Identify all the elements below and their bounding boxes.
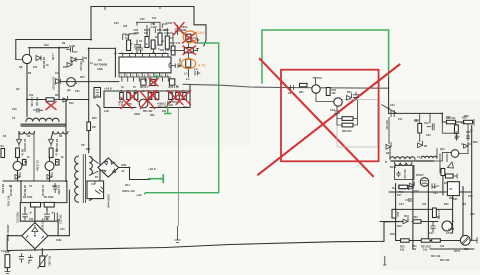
wire bridge2 E <box>119 168 150 180</box>
resistor R07 <box>342 123 353 127</box>
boundary faint box <box>337 100 378 148</box>
wire inter-stage <box>18 158 50 182</box>
svg-text:R26: R26 <box>446 116 451 119</box>
resistor R35 <box>183 93 187 100</box>
svg-text:GND: GND <box>97 68 103 71</box>
annotation X on R36 <box>46 102 56 110</box>
capacitor C56 <box>138 44 143 53</box>
capacitor C04 <box>334 107 339 118</box>
resistor R48 x-ed <box>184 48 193 53</box>
capacitor C22 <box>427 123 434 130</box>
transistor Q24 <box>442 221 452 231</box>
resistor R43 <box>145 37 149 48</box>
resistor R16B <box>446 174 454 178</box>
svg-text:2.2: 2.2 <box>194 68 198 71</box>
resistor R33 <box>169 93 173 100</box>
svg-text:B772: B772 <box>454 250 461 253</box>
wire Q01 emitter <box>316 93 334 101</box>
svg-text:R31: R31 <box>183 106 188 109</box>
svg-text:C11: C11 <box>29 218 34 221</box>
svg-text:PC817: PC817 <box>416 174 424 177</box>
svg-text:2200: 2200 <box>52 185 58 188</box>
svg-text:+10n: +10n <box>136 194 142 197</box>
component row above T1 <box>27 99 89 101</box>
resistor R60 <box>148 93 152 100</box>
svg-text:C22: C22 <box>424 122 429 125</box>
svg-text:2.2: 2.2 <box>186 78 190 81</box>
diode D5 <box>17 140 22 147</box>
IC top pin stubs <box>123 53 168 57</box>
svg-text:103: 103 <box>5 251 10 254</box>
annotation X on R33 <box>168 91 184 105</box>
wire T2 bottom stub <box>91 181 95 184</box>
svg-text:R2 150k: R2 150k <box>44 196 54 199</box>
svg-text:D12: D12 <box>69 102 74 105</box>
wire bridge E <box>48 235 69 237</box>
transistor Q10 <box>22 54 31 63</box>
svg-text:R2 430k: R2 430k <box>1 184 4 194</box>
wire to R-network <box>20 181 22 203</box>
svg-text:T1: T1 <box>12 116 16 120</box>
svg-text:10k: 10k <box>412 248 417 251</box>
wire riser right <box>65 100 67 182</box>
svg-text:C36: C36 <box>12 108 17 111</box>
capacitor C26 <box>397 171 401 177</box>
capacitor C03 <box>353 92 359 101</box>
annotation X on C60A <box>174 23 184 35</box>
svg-text:C13: C13 <box>44 218 49 221</box>
svg-text:0.022: 0.022 <box>166 22 173 25</box>
capacitor C33 <box>431 222 436 232</box>
capacitor C13 <box>44 211 53 220</box>
wire resistor row rail1 <box>20 202 67 204</box>
resistor R40 top <box>399 185 408 188</box>
INNER BOX CIRCUIT <box>288 76 378 147</box>
svg-text:D10 FR107: D10 FR107 <box>52 77 55 90</box>
transformer T1 core <box>21 124 66 126</box>
node green stub marker <box>164 101 171 114</box>
wire left drop <box>15 40 17 60</box>
capacitor C27 <box>455 134 459 141</box>
svg-text:104: 104 <box>33 66 38 69</box>
diode D10 <box>56 79 61 84</box>
svg-text:KA7500B: KA7500B <box>94 63 108 67</box>
wire T2 to bridge top <box>91 158 99 164</box>
svg-text:2.2k: 2.2k <box>104 110 109 113</box>
annotation X on R63 <box>149 79 158 87</box>
svg-text:473: 473 <box>123 25 128 28</box>
node tick top rail <box>105 7 160 11</box>
bridge rectifier D1-D4 <box>22 223 48 249</box>
node green probe marker <box>148 174 164 183</box>
wire pin10 out <box>191 38 200 43</box>
annotation X on R51 <box>183 33 197 44</box>
wire bottom bus <box>3 180 66 182</box>
transistor Q1 <box>13 162 22 171</box>
svg-text:104: 104 <box>398 118 403 121</box>
wire top outer loop <box>16 7 206 47</box>
capacitor C66 in circle <box>186 59 191 67</box>
resistor R30 <box>418 124 422 134</box>
wire under R51 <box>170 41 199 77</box>
svg-text:A733: A733 <box>448 228 455 231</box>
svg-text:180k: 180k <box>121 164 127 167</box>
transformer T2 right winding A <box>89 157 92 176</box>
value labels left block <box>3 17 190 254</box>
wire branch vertical <box>88 49 90 123</box>
wire rail +B <box>28 47 68 49</box>
capacitor C24 <box>391 110 394 117</box>
transformer T2 left winding <box>75 156 79 202</box>
transformer T3 bottom winding <box>395 163 412 166</box>
wire grid horizontals <box>380 192 472 241</box>
varistor TH1 <box>40 256 45 267</box>
capacitor C59 <box>151 43 157 53</box>
svg-text:22k: 22k <box>162 110 167 113</box>
svg-text:TH1 302: TH1 302 <box>48 256 51 266</box>
resistor R62 <box>155 93 159 100</box>
annotation orange circle C66 <box>181 59 195 69</box>
svg-text:R61 33k: R61 33k <box>143 110 153 113</box>
wire right col verticals <box>442 122 468 140</box>
resistor R6 <box>23 160 27 166</box>
wire riser x69 <box>68 190 70 236</box>
svg-text:3x4B: 3x4B <box>69 45 75 48</box>
wire x100 into box <box>99 178 101 181</box>
capacitor C31 <box>432 183 439 188</box>
svg-text:4.7k: 4.7k <box>164 32 169 35</box>
wire T1 center tap <box>33 132 35 182</box>
svg-text:R5 1k: R5 1k <box>21 149 24 156</box>
RED ANNOTATIONS <box>46 23 400 177</box>
svg-text:R15: R15 <box>80 76 85 79</box>
svg-text:R1A 1.0k: R1A 1.0k <box>8 195 11 206</box>
transistor Q01 <box>312 85 320 93</box>
svg-text:10k: 10k <box>440 245 445 248</box>
svg-text:R19: R19 <box>396 212 399 217</box>
svg-text:D24: D24 <box>404 215 409 218</box>
svg-text:C10 220u: C10 220u <box>16 212 19 223</box>
wire rail2 <box>20 203 58 236</box>
diode D26 <box>448 162 454 168</box>
transformer T1 secondary A <box>19 132 35 135</box>
GREEN ANNOTATIONS <box>144 30 389 194</box>
capacitor C10 <box>22 211 31 220</box>
diode D7b <box>47 172 52 179</box>
svg-text:7805: 7805 <box>452 198 458 201</box>
RIGHT BLOCK <box>380 78 478 265</box>
components under IC: resistor R64 <box>141 79 146 85</box>
diode D21 <box>418 141 423 148</box>
svg-text:+1.4B: +1.4B <box>51 53 54 60</box>
svg-text:R17: R17 <box>397 194 402 197</box>
svg-text:R42: R42 <box>413 216 418 219</box>
svg-text:C35: C35 <box>470 213 475 216</box>
diode D24 <box>403 217 408 224</box>
capacitor C28 end <box>473 119 475 126</box>
wire T2 to bridge bottom <box>91 171 99 175</box>
resistor R31 <box>441 169 445 176</box>
bridge rectifier 2 <box>98 158 119 177</box>
capacitor C61 <box>171 64 183 68</box>
resistor R18b <box>450 191 457 195</box>
svg-text:10k: 10k <box>423 249 428 252</box>
svg-text:2.0: 2.0 <box>184 73 188 76</box>
svg-text:R32 22k: R32 22k <box>158 106 168 109</box>
svg-text:R49 4.7k: R49 4.7k <box>170 42 181 45</box>
IC U1 KA7500B <box>119 57 171 73</box>
svg-text:1N: 1N <box>84 57 87 60</box>
wire slant <box>97 105 100 182</box>
svg-text:22k: 22k <box>169 104 174 107</box>
resistor R57 <box>127 93 131 100</box>
resistor R63 x-ed <box>150 79 155 85</box>
resistor R59 <box>134 93 138 100</box>
node green pin14 underline <box>154 75 161 77</box>
svg-text:T04 4W: T04 4W <box>35 97 38 106</box>
capacitor C02 stub <box>313 76 319 85</box>
transformer T3 core <box>391 160 434 162</box>
resistor R51 in circle <box>186 34 191 41</box>
svg-text:C24 104: C24 104 <box>385 120 388 130</box>
wire stubs above IC extra <box>123 24 168 40</box>
svg-text:C10: C10 <box>60 228 65 231</box>
svg-text:EE19: EE19 <box>390 166 397 169</box>
capacitor C32 <box>405 198 411 202</box>
svg-text:C27: C27 <box>454 131 459 134</box>
connector J1 <box>94 88 101 98</box>
svg-text:D20: D20 <box>386 152 391 155</box>
IC pin bottom stubs <box>122 77 168 82</box>
wire bridge W <box>7 236 22 251</box>
diode D7 <box>49 140 54 147</box>
svg-text:D01: D01 <box>347 91 352 94</box>
capacitor C14 <box>19 253 24 263</box>
transistor Q2 <box>45 162 54 171</box>
annotation X on C62 <box>121 98 132 109</box>
resistor R16 <box>87 122 91 131</box>
resistor R44 <box>127 40 131 51</box>
transistor Q02 <box>334 98 342 106</box>
svg-text:C24: C24 <box>390 104 395 107</box>
svg-text:150k: 150k <box>56 239 62 242</box>
diode D8 <box>36 56 41 61</box>
svg-text:R23: R23 <box>464 248 469 251</box>
svg-text:P: P <box>385 160 387 164</box>
diode D20 <box>386 142 391 149</box>
diode D9 <box>71 57 83 63</box>
svg-text:10k: 10k <box>461 122 466 125</box>
capacitor C53 <box>67 47 78 52</box>
resistor R21 <box>421 239 430 242</box>
svg-text:1k2: 1k2 <box>462 203 467 206</box>
transistor Q21 <box>451 150 459 158</box>
svg-text:IC2: IC2 <box>392 187 397 190</box>
svg-text:C31: C31 <box>433 192 438 195</box>
wire drop to ground <box>177 108 179 227</box>
resistor R02 <box>326 88 330 96</box>
wire res ladder <box>337 117 358 125</box>
diode D25 <box>408 184 413 190</box>
svg-text:C04: C04 <box>330 109 335 112</box>
wire sec B left <box>51 132 53 140</box>
svg-text:D23: D23 <box>414 190 419 193</box>
svg-text:10k: 10k <box>400 249 405 252</box>
transformer T3 top winding B <box>421 156 437 158</box>
transformer T1 primary <box>26 118 59 121</box>
resistor R1 <box>31 202 41 207</box>
svg-text:R40: R40 <box>399 191 404 194</box>
svg-text:103: 103 <box>55 72 60 75</box>
resistor R41 <box>392 209 396 218</box>
svg-text:R18: R18 <box>390 233 395 236</box>
transformer T3 top winding A <box>390 157 415 160</box>
resistor R53 <box>169 79 174 85</box>
svg-text:R06 223: R06 223 <box>342 130 352 133</box>
wire mid vertical <box>58 48 60 100</box>
resistor R45b <box>433 208 437 218</box>
svg-text:R21 10k: R21 10k <box>431 255 441 258</box>
svg-text:R28: R28 <box>464 115 469 118</box>
capacitor C58 <box>134 40 140 53</box>
resistor R01 <box>300 83 308 86</box>
IC box U4 <box>447 182 459 196</box>
svg-text:C56: C56 <box>114 22 119 25</box>
svg-text:103: 103 <box>422 203 427 206</box>
wire green net pin10 <box>144 43 219 194</box>
svg-text:R01: R01 <box>299 91 304 94</box>
svg-text:R22 10k: R22 10k <box>440 259 450 262</box>
svg-text:C22: C22 <box>426 134 431 137</box>
svg-text:R1 150k: R1 150k <box>23 196 33 199</box>
value labels right block <box>386 104 478 253</box>
wire grey long <box>183 84 389 88</box>
ORANGE ANNOTATIONS <box>181 30 205 69</box>
svg-text:C34: C34 <box>399 203 404 206</box>
svg-text:+10.5: +10.5 <box>148 167 156 171</box>
transformer T2 core <box>83 154 85 203</box>
diode D12 <box>63 96 68 102</box>
annotation big X stroke B <box>258 65 399 175</box>
annotation X on R48 <box>183 46 196 55</box>
svg-text:6k8: 6k8 <box>86 148 91 151</box>
resistor R26 <box>447 120 456 124</box>
svg-text:T2: T2 <box>81 143 85 147</box>
annotation X on Q11 <box>141 92 155 109</box>
diode D9b <box>67 60 72 67</box>
svg-text:C57: C57 <box>140 18 145 21</box>
ground main <box>4 272 10 274</box>
svg-text:D8 FR302: D8 FR302 <box>42 57 45 69</box>
resistor R50 <box>158 33 162 45</box>
wire right drop <box>357 100 359 125</box>
svg-text:1N: 1N <box>27 135 30 138</box>
wire lower rail <box>413 241 474 250</box>
capacitor C15 <box>28 255 33 264</box>
svg-text:471: 471 <box>432 186 437 189</box>
svg-text:R14: R14 <box>125 184 130 187</box>
svg-text:PC: PC <box>95 176 99 179</box>
wire entry vertical <box>388 78 390 113</box>
svg-text:15k: 15k <box>29 94 34 97</box>
svg-text:D22: D22 <box>473 141 478 144</box>
diode D5b <box>15 172 20 179</box>
svg-text:R25: R25 <box>444 203 449 206</box>
svg-text:13c*: 13c* <box>197 30 205 35</box>
resistor R49 <box>171 46 175 55</box>
resistor R2 <box>44 202 54 207</box>
svg-text:C6 1130n: C6 1130n <box>36 160 39 171</box>
resistor R34 <box>176 93 180 100</box>
svg-text:400kV+10n: 400kV+10n <box>122 190 135 193</box>
svg-text:C31: C31 <box>75 90 80 93</box>
capacitor C28 <box>466 134 470 141</box>
svg-text:C36 15k: C36 15k <box>30 97 33 107</box>
transformer T1 secondary B <box>53 132 68 135</box>
resistor R8 <box>49 148 53 158</box>
label cluster above IC <box>131 36 173 51</box>
annotation X on R60 <box>148 91 158 101</box>
svg-text:C26 10n: C26 10n <box>403 169 406 179</box>
svg-text:C30: C30 <box>468 195 473 198</box>
svg-text:104: 104 <box>152 17 157 20</box>
wire rail1 riser <box>66 181 68 203</box>
optocoupler U2 <box>87 181 104 199</box>
annotation big X stroke A <box>260 59 373 177</box>
wire bottom stub <box>383 256 387 265</box>
svg-text:C61 15k: C61 15k <box>178 58 181 68</box>
resistor R9 <box>56 160 60 166</box>
resistor R4 edge <box>1 149 5 158</box>
wire entry diagonal <box>382 105 398 114</box>
svg-text:10k: 10k <box>332 92 337 95</box>
annotation orange circle R51 <box>183 31 197 43</box>
diode D22 <box>461 142 471 148</box>
svg-text:+14.8: +14.8 <box>104 87 112 91</box>
red X'd capacitor C60A <box>175 25 181 35</box>
transistor Q22 <box>420 178 429 187</box>
resistor R06 <box>342 117 353 121</box>
svg-text:R16: R16 <box>92 117 97 120</box>
svg-text:1N60: 1N60 <box>134 113 141 116</box>
IC pin row bottom <box>119 73 171 77</box>
svg-text:10k: 10k <box>144 32 149 35</box>
svg-text:12k: 12k <box>125 37 130 40</box>
svg-text:R27: R27 <box>455 136 460 139</box>
wire secondary loop <box>395 166 415 180</box>
svg-text:R61: R61 <box>150 114 155 117</box>
svg-text:+B: +B <box>121 170 124 173</box>
wire row rails <box>104 85 190 108</box>
svg-text:R19: R19 <box>397 225 402 228</box>
resistor R5 <box>16 148 20 158</box>
svg-text:U1: U1 <box>98 58 102 62</box>
ground stub mid <box>175 226 181 243</box>
wire sec A left <box>18 132 20 140</box>
wire top rails above IC <box>129 22 173 46</box>
svg-text:4.7k: 4.7k <box>198 63 206 68</box>
capacitor C35 <box>33 108 43 113</box>
resistor R36 15k/4W <box>46 98 54 101</box>
resistor R45 <box>151 40 155 49</box>
svg-text:C3500 4n65: C3500 4n65 <box>107 194 110 208</box>
transistor Q25 <box>460 235 470 245</box>
wire green box outline <box>262 30 389 84</box>
resistor R22 <box>432 239 441 242</box>
svg-text:C55 1kV: C55 1kV <box>79 61 82 71</box>
svg-text:2W: 2W <box>92 126 96 129</box>
svg-text:Q21: Q21 <box>440 148 445 151</box>
